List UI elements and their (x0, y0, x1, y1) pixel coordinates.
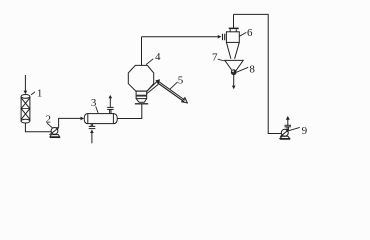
svg-text:3: 3 (91, 97, 97, 109)
svg-text:2: 2 (45, 113, 51, 125)
svg-text:5: 5 (178, 74, 184, 86)
svg-text:4: 4 (155, 51, 161, 63)
svg-text:9: 9 (302, 125, 308, 137)
svg-text:7: 7 (212, 51, 218, 63)
svg-text:8: 8 (249, 63, 255, 75)
svg-text:1: 1 (37, 88, 43, 100)
svg-text:6: 6 (247, 27, 253, 39)
